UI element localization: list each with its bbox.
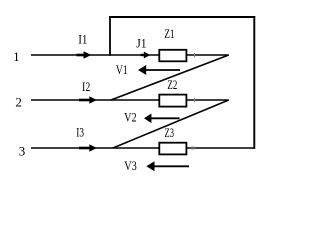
svg-text:I3: I3 (76, 125, 84, 140)
right feedback wire (253, 16, 255, 149)
wire line 2 (31, 99, 229, 101)
current arrow J1 (141, 52, 151, 59)
diagonal wire from line 2 right end to line 3 junction (113, 100, 229, 148)
svg-text:Z2: Z2 (167, 77, 177, 92)
svg-text:I1: I1 (78, 31, 87, 46)
impedance Z2 (159, 95, 186, 107)
svg-text:J1: J1 (136, 35, 146, 50)
wire line 1 (31, 54, 229, 56)
junction tick on line 2 (194, 98, 196, 102)
voltage arrow V1 (138, 65, 180, 75)
svg-text:V3: V3 (124, 158, 137, 173)
impedance Z1 (159, 50, 186, 62)
svg-text:V2: V2 (124, 110, 137, 125)
wire line 3 (31, 147, 255, 149)
junction tick on line 3 (191, 147, 195, 150)
svg-text:3: 3 (19, 143, 26, 158)
current arrow I3 (79, 144, 97, 151)
current arrow I2 (79, 96, 97, 103)
svg-text:2: 2 (15, 94, 22, 109)
voltage arrow V2 (144, 114, 180, 124)
svg-text:V1: V1 (116, 62, 128, 77)
svg-text:1: 1 (13, 49, 20, 64)
voltage arrow V3 (146, 161, 189, 171)
svg-text:Z3: Z3 (165, 125, 175, 140)
svg-text:I2: I2 (82, 79, 90, 94)
junction tick on line 1 (194, 53, 196, 57)
svg-text:Z1: Z1 (164, 26, 174, 41)
node A junction vertical wire (109, 17, 111, 56)
current arrow I1 (77, 51, 92, 58)
impedance Z3 (159, 143, 186, 155)
diagonal wire from line 1 right end to line 2 junction (111, 55, 229, 100)
top feedback wire (109, 16, 255, 18)
